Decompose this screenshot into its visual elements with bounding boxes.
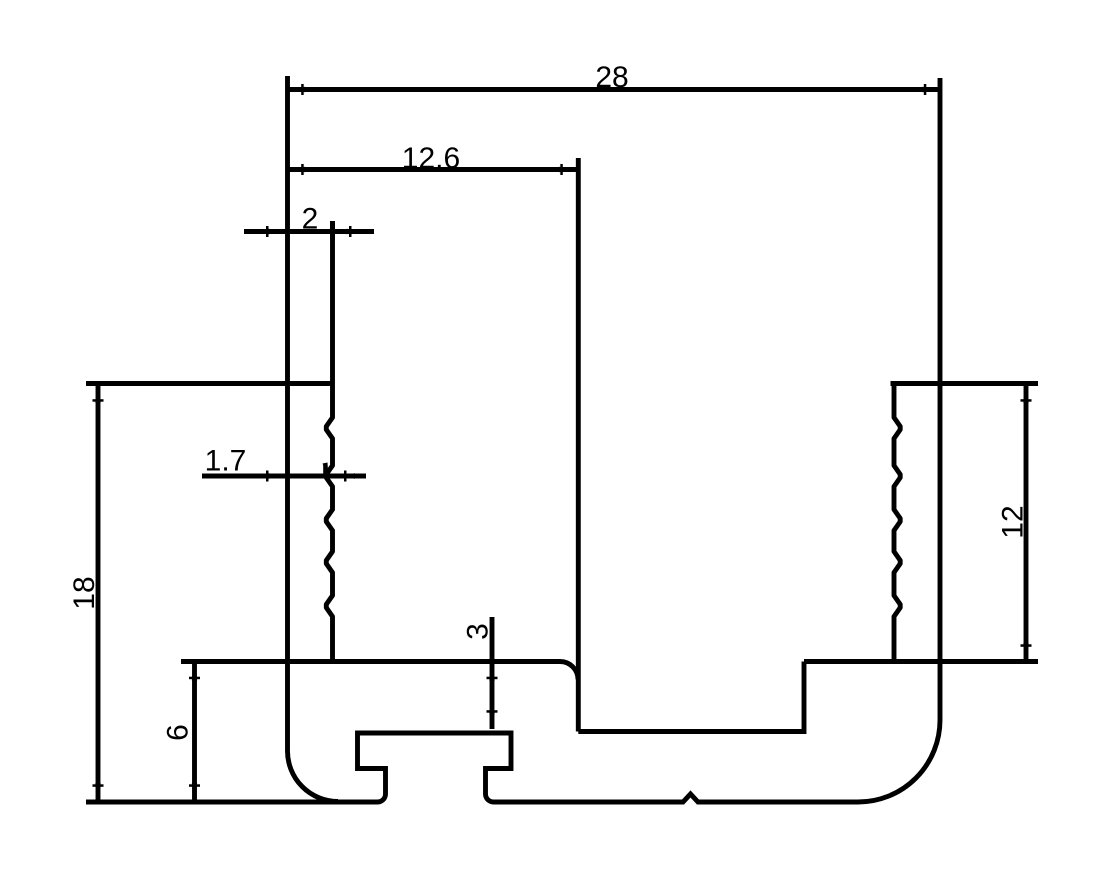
wire: left wall outer face with bottom-left fillet	[287, 76, 338, 802]
dimension 6: bottom arrowhead	[192, 783, 197, 800]
wire: right wall inner face with serrations	[894, 384, 900, 662]
wire: middle recess left wall / 12.6-dim extension	[576, 158, 581, 732]
dimension 12: top arrowhead	[1023, 386, 1028, 403]
wire: bottom outline left of T-slot	[86, 800, 378, 805]
wire: right wall top surface and 12-dim extension	[891, 381, 1039, 386]
svg-text:28: 28	[595, 61, 628, 94]
dimension 3: dimension line	[490, 664, 495, 729]
dimension 12.6: right arrowhead	[559, 167, 576, 172]
wire: bottom outline right of T-slot with identification notch	[494, 794, 859, 802]
dimension 3: bottom arrowhead	[489, 713, 494, 730]
dimension 12: dimension line	[1024, 386, 1029, 660]
dimension 12.6: left arrowhead	[288, 167, 305, 172]
dimension 3: top arrowhead	[489, 664, 494, 681]
dimension 2: left outside arrowhead	[269, 229, 286, 234]
dimension 18: bottom arrowhead	[95, 783, 100, 800]
dimension 18: top arrowhead	[95, 386, 100, 403]
dimension 6: dimension line	[192, 664, 197, 801]
dimension 12: bottom arrowhead	[1023, 643, 1028, 660]
node T-slot: screw channel outline	[358, 733, 512, 802]
dimension 6: top arrowhead	[192, 664, 197, 681]
dimension 28: dimension line	[288, 87, 940, 92]
svg-text:18: 18	[68, 576, 101, 609]
dimension 28: right arrowhead	[923, 87, 940, 92]
wire: recess floor and right recess wall	[578, 662, 804, 732]
dimension 1.7: right outside arrowhead	[338, 473, 355, 478]
wire: left wall top surface and 18-dim extension	[86, 381, 333, 386]
wire: 3-dim extension line	[490, 617, 495, 662]
dimension 18: dimension line	[96, 386, 101, 800]
svg-text:2: 2	[302, 203, 319, 236]
svg-text:6: 6	[162, 724, 195, 741]
svg-text:12.6: 12.6	[402, 142, 460, 175]
wire: left wall inner face with serrations	[326, 221, 332, 662]
dimension 28: left arrowhead	[288, 87, 305, 92]
dimension 2: right outside arrowhead	[331, 229, 348, 234]
svg-text:12: 12	[997, 505, 1030, 538]
wire: base top surface right side and 12-dim extension	[804, 659, 1038, 664]
dimension 12.6: dimension line	[288, 167, 576, 172]
svg-text:1.7: 1.7	[205, 445, 247, 478]
wire: bottom-right corner fillet and right wall outer face	[858, 78, 940, 802]
wire: base top surface left with fillet into recess wall	[181, 662, 578, 680]
dimension 1.7: angled arrowhead at serration vertex	[323, 463, 329, 478]
dimension 1.7: dimension line	[202, 474, 366, 479]
wire: 2-dim extension line (left wall inner face extended)	[330, 221, 335, 240]
dimension 1.7: left outside arrowhead	[269, 473, 286, 478]
svg-text:3: 3	[462, 623, 495, 640]
dimension 2: dimension line	[244, 229, 374, 234]
